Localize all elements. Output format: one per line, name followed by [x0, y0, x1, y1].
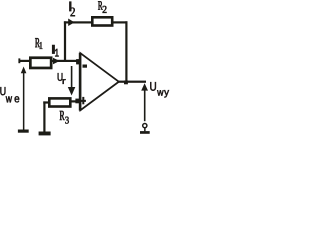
wire: R3 left side to ground: [43, 101, 48, 131]
label R2: [98, 1, 106, 13]
label I2: [69, 2, 75, 16]
node A: inverting input junction square: [76, 59, 80, 64]
voltage arrow Ur: [68, 66, 76, 96]
wire: right feedback vertical down to output: [125, 21, 127, 82]
wire: op-amp output: [118, 81, 146, 83]
op-amp U1: [79, 53, 119, 111]
wire: input terminal to R1: [20, 60, 30, 62]
wire: R1 to op-amp inverting input: [53, 60, 80, 62]
terminal circle at output: [143, 124, 147, 128]
label R1: [35, 38, 42, 49]
wire: R2 to right corner: [114, 21, 128, 23]
wire: top rail corner to R2: [64, 21, 91, 23]
input terminal tick: [18, 58, 20, 63]
resistor R1: [29, 56, 53, 69]
input lower terminal bar: [18, 130, 29, 133]
resistor R3: [48, 97, 72, 108]
wire: R3 to op-amp non-inverting input: [72, 100, 80, 102]
node B: non-inverting input junction square: [75, 99, 80, 104]
label Uwe: [0, 87, 19, 102]
current arrow I1: [53, 58, 60, 65]
op-amp plus sign: [81, 97, 86, 104]
op-amp minus sign: [83, 65, 88, 68]
ground left: [39, 132, 51, 136]
label I1: [52, 45, 58, 56]
label R3: [60, 111, 69, 124]
label Ur: [58, 73, 66, 84]
current arrow I2: [68, 19, 74, 27]
wire: feedback vertical from node A up to top rail: [64, 21, 66, 62]
label Uwy: [150, 82, 169, 97]
voltage arrow Uwy: [141, 83, 148, 121]
resistor R2: [91, 16, 114, 27]
junction: feedback joins output wire: [124, 81, 128, 85]
voltage arrow Uwe: [21, 67, 27, 130]
ground right: [140, 128, 150, 134]
